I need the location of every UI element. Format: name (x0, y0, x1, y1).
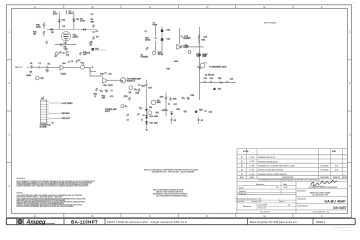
svg-text:RETURN: RETURN (62, 113, 71, 115)
svg-text:1-7-99: 1-7-99 (249, 174, 254, 176)
svg-text:1M: 1M (33, 34, 36, 36)
svg-text:F: F (321, 5, 323, 9)
svg-text:VR2: VR2 (40, 78, 44, 80)
svg-text:J3 CONN: J3 CONN (40, 126, 48, 128)
svg-text:A: A (34, 214, 36, 218)
svg-text:R58: R58 (218, 78, 221, 80)
svg-text:ECN 1098: ECN 1098 (321, 170, 329, 172)
svg-text:1-7-99: 1-7-99 (249, 157, 254, 159)
svg-text:D14: D14 (150, 116, 153, 118)
svg-text:Bass Amplifier PV R/B bass ext: Bass Amplifier PV R/B bass extra srs. (250, 220, 298, 224)
svg-text:1000u: 1000u (145, 40, 151, 42)
svg-text:TL072: TL072 (61, 74, 68, 76)
svg-text:TL072: TL072 (108, 85, 113, 87)
svg-text:TIP35: TIP35 (158, 54, 164, 56)
svg-text:VOL: VOL (81, 63, 85, 65)
svg-text:12AX7: 12AX7 (73, 36, 80, 39)
svg-text:Released:: Released: (239, 193, 247, 195)
svg-text:C36: C36 (210, 78, 213, 80)
svg-text:1-7-99: 1-7-99 (249, 161, 254, 163)
svg-text:GA-BU 46AP: GA-BU 46AP (324, 200, 346, 204)
svg-text:B: B (91, 214, 93, 218)
svg-text:A: A (34, 5, 36, 9)
svg-text:E: E (263, 5, 265, 9)
svg-text:Ampeg: Ampeg (26, 220, 47, 226)
svg-text:1-7-99: 1-7-99 (249, 165, 254, 167)
svg-text:TO SPEAKER JACK: TO SPEAKER JACK (209, 66, 227, 69)
svg-text:C11: C11 (108, 73, 111, 75)
svg-text:Drawing No:: Drawing No: (297, 198, 306, 200)
svg-text:1-7-99: 1-7-99 (249, 170, 254, 172)
svg-text:CHANGED R4 VALUE: CHANGED R4 VALUE (258, 156, 276, 159)
svg-text:ASSY: ASSY (105, 110, 111, 113)
svg-text:B: B (91, 5, 93, 9)
svg-text:MJE: MJE (157, 102, 162, 104)
svg-text:4-99: 4-99 (332, 151, 336, 153)
svg-text:E: E (263, 214, 265, 218)
svg-text:K1 RELAY: K1 RELAY (205, 74, 215, 77)
svg-text:220K: 220K (36, 27, 41, 29)
svg-text:ADDED D12 AND R44 PER ENG: ADDED D12 AND R44 PER ENG (258, 169, 284, 172)
svg-text:NOT TO SCALE: NOT TO SCALE (264, 22, 277, 25)
svg-text:M: M (121, 80, 123, 82)
svg-text:+15: +15 (126, 114, 129, 116)
svg-text:PRE OUT: PRE OUT (62, 118, 71, 120)
svg-text:CHANGED C1 C2 C3 AND PWR SUPPL: CHANGED C1 C2 C3 AND PWR SUPPLY CAPS (258, 165, 296, 168)
svg-text:POWER: POWER (141, 57, 149, 59)
svg-text:R39: R39 (167, 68, 170, 70)
svg-text:CHANGED XFMR TO NEW VENDOR: CHANGED XFMR TO NEW VENDOR (258, 173, 287, 176)
svg-text:C3: C3 (71, 61, 73, 63)
svg-text:S/N 0897: S/N 0897 (333, 206, 347, 210)
svg-text:Checked:: Checked: (239, 191, 246, 193)
svg-text:GAIN: GAIN (26, 74, 31, 77)
svg-text:Tolerances: Tolerances (243, 206, 252, 208)
svg-text:C: C (241, 165, 243, 168)
svg-text:R1: R1 (30, 63, 32, 65)
svg-text:F: F (321, 214, 323, 218)
svg-text:LOOP SEND: LOOP SEND (62, 103, 74, 105)
svg-text:D15: D15 (150, 122, 153, 124)
svg-text:4-7-99: 4-7-99 (243, 151, 248, 153)
svg-text:J3: J3 (41, 98, 43, 100)
svg-text:Visual Note: Visual Note (17, 177, 26, 180)
svg-text:1M: 1M (30, 71, 33, 73)
svg-text:BOARD J2: BOARD J2 (127, 80, 135, 83)
svg-text:4148: 4148 (154, 122, 158, 124)
svg-text:PWR: PWR (153, 25, 158, 27)
svg-text:470K: 470K (80, 21, 85, 23)
svg-text:NOTES:: NOTES: (17, 193, 24, 195)
svg-text:4148: 4148 (154, 116, 158, 118)
svg-text:C1: C1 (39, 63, 41, 65)
svg-text:R19: R19 (100, 73, 103, 75)
svg-text:PAGE 1: PAGE 1 (316, 220, 326, 224)
svg-text:R2: R2 (48, 63, 50, 65)
svg-text:PRODUCTION RELEASE: PRODUCTION RELEASE (258, 160, 278, 163)
svg-text:BA-115HPT: BA-115HPT (71, 219, 98, 224)
svg-text:C8: C8 (127, 119, 129, 121)
svg-text:INPUT 1: INPUT 1 (15, 67, 22, 69)
svg-text:P0007 LOUD Re-boxing is also -: P0007 LOUD Re-boxing is also - Alright m… (107, 220, 187, 224)
svg-text:D: D (241, 160, 243, 163)
svg-text:+40V: +40V (174, 61, 179, 63)
svg-text:C35: C35 (204, 78, 207, 80)
svg-text:ECN 1045: ECN 1045 (321, 166, 329, 168)
